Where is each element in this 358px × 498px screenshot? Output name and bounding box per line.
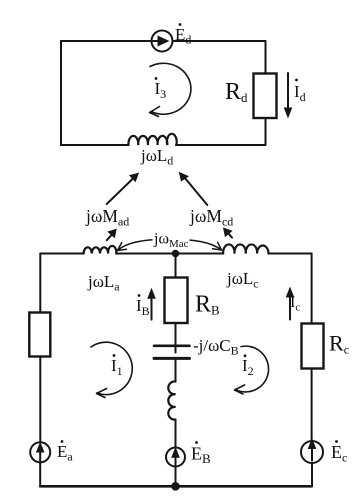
- wire right upper: [311, 254, 313, 325]
- svg-text:Ec: Ec: [331, 442, 347, 465]
- svg-text:I1: I1: [111, 356, 123, 378]
- svg-text:Ed: Ed: [175, 25, 191, 47]
- source Ea: [30, 442, 50, 463]
- wire top-right of lower circuit: [269, 253, 312, 255]
- current loop arrow I1: [91, 342, 132, 397]
- label I3: [155, 77, 167, 101]
- svg-text:Id: Id: [294, 82, 306, 104]
- voltage source Ed: [152, 31, 173, 52]
- svg-text:RB: RB: [195, 292, 220, 318]
- wire right-lower of loop 3: [265, 118, 267, 146]
- svg-text:Ic: Ic: [290, 294, 300, 314]
- resistor Rd: [254, 74, 277, 119]
- label jwMac: [153, 231, 190, 251]
- label Ea: [57, 440, 73, 463]
- svg-text:jωLd: jωLd: [140, 146, 173, 168]
- current arrow Id: [284, 73, 293, 119]
- svg-text:I2: I2: [242, 356, 254, 378]
- svg-text:jωLa: jωLa: [87, 272, 120, 294]
- svg-text:-j/ωCB: -j/ωCB: [193, 336, 239, 358]
- label Ec: [331, 440, 347, 464]
- wire top-left of lower circuit: [40, 253, 83, 255]
- wire top-middle of lower circuit: [116, 253, 223, 255]
- svg-text:EB: EB: [191, 444, 211, 467]
- wire right middle: [311, 369, 313, 442]
- resistor RB: [165, 278, 188, 324]
- current loop arrow I3: [150, 63, 191, 116]
- wire bottom-left of loop 3: [61, 144, 129, 146]
- wire middle below capacitor: [175, 358, 177, 381]
- label Id: [294, 79, 306, 104]
- wire middle above EB: [175, 420, 177, 448]
- wire bottom of lower circuit: [40, 485, 311, 488]
- label EB: [191, 441, 211, 466]
- capacitor CB: [154, 346, 190, 359]
- wire middle above capacitor: [175, 323, 177, 353]
- label I1: [111, 354, 123, 378]
- wire middle lower: [175, 467, 177, 487]
- inductor La: [84, 246, 117, 254]
- small arrow from La toward Mad: [107, 229, 117, 241]
- svg-text:Ea: Ea: [57, 442, 73, 464]
- resistor Rc: [302, 324, 324, 369]
- wire left upper: [39, 254, 41, 314]
- svg-text:Rd: Rd: [225, 79, 248, 105]
- inductor Ld: [128, 134, 176, 145]
- mutual coupling arc Mac: [118, 239, 222, 250]
- source EB: [166, 447, 185, 467]
- node top junction: [172, 250, 180, 258]
- wire bottom-right of loop 3: [176, 144, 266, 146]
- wire right-upper of loop 3: [265, 41, 267, 74]
- svg-text:I3: I3: [155, 79, 167, 101]
- svg-text:Rc: Rc: [329, 331, 349, 357]
- current arrow IB: [147, 288, 156, 320]
- wire middle upper: [175, 254, 177, 278]
- small arrow from Lc toward Mcd: [223, 228, 233, 238]
- node bottom junction: [171, 482, 180, 491]
- label IB: [136, 294, 150, 318]
- mutual arrow Mcd to Ld: [179, 172, 208, 205]
- wire left middle: [39, 357, 41, 443]
- label I2: [242, 354, 254, 378]
- inductor Lc: [223, 244, 268, 253]
- svg-text:IB: IB: [136, 296, 150, 318]
- svg-text:jωMad: jωMad: [85, 206, 129, 229]
- wire top of loop 3: [61, 40, 266, 42]
- wire right lower: [311, 463, 313, 486]
- label Ed (top source): [175, 23, 191, 46]
- inductor LB: [168, 381, 175, 419]
- svg-text:jωLc: jωLc: [226, 269, 259, 291]
- current arrow Ic: [286, 287, 295, 320]
- svg-text:jωMcd: jωMcd: [189, 206, 233, 229]
- source Ec: [301, 438, 323, 463]
- wire left of loop 3: [60, 41, 62, 145]
- wire left lower: [39, 462, 41, 486]
- resistor left branch: [29, 313, 50, 357]
- current loop arrow I2: [235, 346, 269, 394]
- mutual arrow Mad to Ld: [107, 173, 139, 204]
